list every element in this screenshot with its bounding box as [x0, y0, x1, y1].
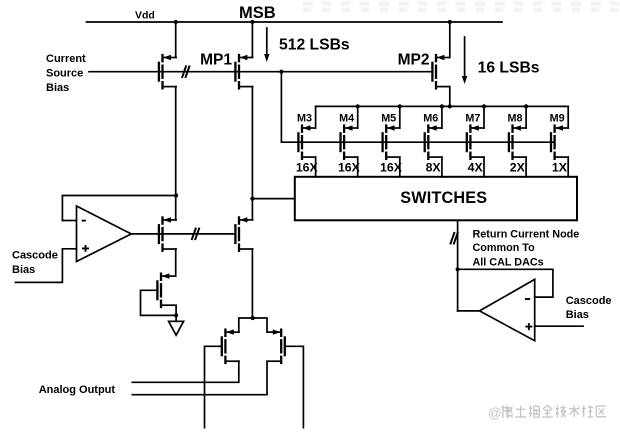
wire CAL DAC array rail: [316, 105, 569, 107]
svg-text:Bias: Bias: [46, 82, 69, 94]
block SWITCHES box: [295, 177, 577, 221]
wire M5 source to array rail: [399, 106, 401, 128]
svg-text:M8: M8: [508, 112, 523, 124]
junction bias riser tap: [279, 70, 283, 74]
wire right cascode source up to MP1 drain node: [251, 199, 253, 220]
transistor right cascode (mid row): [235, 216, 252, 252]
decorative faint watermark row (not labeled further): [302, 2, 620, 13]
wire Vdd rail: [87, 21, 503, 23]
svg-text:16 LSBs: 16 LSBs: [478, 59, 540, 76]
svg-text:Analog Output: Analog Output: [39, 384, 116, 396]
wire T1 source to Vdd rail: [175, 22, 177, 58]
transistor current-source (top-left): [159, 54, 176, 90]
wire MP1 drain down: [251, 87, 253, 199]
svg-text:Vdd: Vdd: [135, 10, 155, 22]
transistor MP2: [432, 54, 449, 90]
wire output right gate line: [286, 346, 304, 427]
wire M4 drain to SWITCHES: [357, 157, 359, 177]
node Return Current Node label: [473, 228, 580, 268]
transistor MP1: [235, 54, 252, 90]
svg-text:16X: 16X: [338, 161, 361, 175]
svg-text:512 LSBs: 512 LSBs: [279, 36, 350, 53]
svg-text:M3: M3: [297, 112, 312, 124]
wire M6 drain to SWITCHES: [441, 157, 443, 177]
transistor output left: [222, 329, 239, 365]
wire MP2 source to Vdd rail: [449, 22, 451, 58]
junction M8 source on array rail: [524, 104, 528, 108]
junction T1 source on Vdd rail: [174, 20, 178, 24]
svg-text:MP1: MP1: [200, 52, 232, 69]
wire left op-amp noninverting input from Cascode Bias: [16, 249, 77, 283]
op-amp left plus sign: [82, 245, 89, 252]
transistor M5: [383, 124, 400, 160]
wire break symbol on return line: [450, 232, 458, 244]
wire output left drain to Analog Output upper line: [132, 361, 239, 382]
svg-text:Source: Source: [46, 67, 83, 79]
wire output left gate line: [205, 346, 221, 427]
wire T1 drain down to feedback node: [175, 87, 177, 196]
wire left cascode source up to feedback node: [175, 196, 177, 220]
wire right op-amp noninverting input (Cascode Bias): [535, 325, 583, 327]
svg-text:1X: 1X: [552, 161, 568, 175]
junction MP2 drain on array rail: [448, 104, 452, 108]
junction output-pair common node: [251, 316, 255, 320]
node Cascode Bias left label: [12, 249, 58, 276]
transistor M7: [467, 124, 484, 160]
svg-text:M9: M9: [550, 112, 565, 124]
wire return current line from SWITCHES: [457, 220, 459, 311]
junction M6 source on array rail: [440, 104, 444, 108]
node Cascode Bias right label: [566, 295, 612, 321]
op-amp right minus sign: [525, 298, 530, 300]
svg-text:M7: M7: [465, 112, 480, 124]
op-amp left minus sign: [82, 220, 86, 222]
wire break symbol on op-amp output line: [192, 228, 200, 240]
svg-text:Bias: Bias: [12, 264, 35, 276]
transistor M3: [298, 124, 315, 160]
transistor left cascode (mid row): [159, 216, 176, 252]
transistor M9: [551, 124, 568, 160]
wire right cascode drain down to output node: [251, 249, 253, 318]
wire M6 source to array rail: [441, 106, 443, 128]
ground symbol: [169, 321, 184, 335]
junction MP1 drain node: [250, 197, 254, 201]
transistor diode-connected (lower left): [157, 273, 174, 309]
wire M8 drain to SWITCHES: [525, 157, 527, 177]
wire M4 source to array rail: [357, 106, 359, 128]
wire diode transistor gate loop: [141, 290, 177, 315]
op-amp left cascode amp: [77, 206, 132, 262]
op-amp right cascode buffer: [480, 279, 535, 340]
svg-text:MSB: MSB: [239, 4, 276, 22]
wire left cascode drain down: [175, 249, 177, 276]
svg-text:SWITCHES: SWITCHES: [400, 189, 487, 207]
svg-text:4X: 4X: [468, 161, 484, 175]
wire MP1 source to Vdd rail: [251, 22, 253, 58]
wire M3 drain to SWITCHES: [315, 157, 317, 177]
wire M3 source to array rail: [315, 106, 317, 128]
svg-text:Bias: Bias: [566, 309, 589, 321]
wire current-source bias line: [89, 71, 432, 73]
wire MP2 drain to array rail: [449, 87, 451, 107]
wire output node left arm: [239, 318, 267, 332]
wire bias riser to array gate bus: [281, 72, 554, 143]
wire M8 source to array rail: [525, 106, 527, 128]
transistor M8: [509, 124, 526, 160]
op-amp right plus sign: [525, 323, 532, 330]
transistor output right (mirrored): [268, 329, 285, 365]
svg-text:All CAL DACs: All CAL DACs: [473, 256, 544, 268]
wire right op-amp output to return node: [458, 310, 480, 312]
wire M5 drain to SWITCHES: [399, 157, 401, 177]
junction return current node: [456, 267, 460, 271]
wire left feedback line: [62, 196, 176, 221]
svg-text:8X: 8X: [426, 161, 442, 175]
wire 16 LSBs current arrow: [464, 37, 466, 78]
wire M7 source to array rail: [483, 106, 485, 128]
transistor M4: [341, 124, 358, 160]
decorative watermark bottom-right: [488, 405, 607, 420]
svg-text:Common To: Common To: [473, 242, 536, 254]
svg-text:Return Current Node: Return Current Node: [473, 228, 580, 240]
svg-text:@: @: [488, 406, 502, 421]
wire M9 source to array rail: [567, 106, 569, 128]
junction left feedback node: [174, 193, 178, 197]
svg-text:2X: 2X: [510, 161, 526, 175]
node Current Source Bias label: [46, 53, 86, 94]
junction diode transistor gate-drain tie: [174, 313, 178, 317]
junction M5 source on array rail: [398, 104, 402, 108]
wire left op-amp inverting input: [62, 220, 76, 222]
junction MP2 source on Vdd rail: [448, 20, 452, 24]
wire 512 LSBs current arrow: [266, 28, 268, 56]
svg-text:M6: M6: [423, 112, 438, 124]
transistor M6: [425, 124, 442, 160]
svg-text:M5: M5: [381, 112, 396, 124]
svg-text:16X: 16X: [380, 161, 403, 175]
svg-text:M4: M4: [339, 112, 354, 124]
wire left op-amp output to cascode gates: [131, 233, 234, 235]
wire break symbol on bias line: [182, 66, 190, 78]
svg-text:16X: 16X: [296, 161, 319, 175]
junction M4 source on array rail: [356, 104, 360, 108]
junction M7 source on array rail: [482, 104, 486, 108]
junction MP1 source on Vdd rail: [250, 20, 254, 24]
svg-text:Cascode: Cascode: [12, 249, 58, 261]
svg-text:Current: Current: [46, 53, 86, 65]
svg-text:MP2: MP2: [398, 52, 430, 69]
wire output right drain to Analog Output lower line: [132, 361, 267, 395]
wire MP1 drain to SWITCHES: [252, 198, 294, 200]
wire M9 drain to SWITCHES: [567, 157, 569, 177]
wire feedback to right op-amp inverting input: [458, 269, 553, 297]
wire diode transistor drain to ground node: [175, 305, 177, 321]
svg-text:Cascode: Cascode: [566, 295, 612, 307]
wire M7 drain to SWITCHES: [483, 157, 485, 177]
